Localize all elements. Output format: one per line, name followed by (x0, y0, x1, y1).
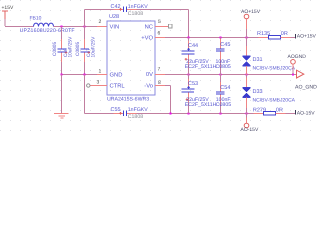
svg-text:AO+15V: AO+15V (297, 34, 317, 40)
svg-text:EC2F_5X11H: EC2F_5X11H (185, 64, 217, 70)
svg-text:C0805: C0805 (216, 64, 231, 70)
svg-text:VIN: VIN (110, 25, 120, 31)
power port AO-15V bottom (241, 114, 259, 134)
svg-text:U28: U28 (109, 14, 119, 20)
svg-text:C45: C45 (220, 42, 230, 48)
junction +VO at C45 (219, 36, 221, 38)
junction 0V at C45/C54 (219, 73, 221, 75)
junction bottom rail at D33 column (245, 112, 247, 114)
svg-text:D31: D31 (253, 57, 263, 63)
junction +VO at D31 column (245, 36, 247, 38)
svg-text:1nFGKV: 1nFGKV (128, 107, 148, 113)
svg-text:NC/BV-SMBJ20CA: NC/BV-SMBJ20CA (253, 97, 296, 103)
wire drop from GND junction to bottom rail (84, 75, 86, 114)
capacitor C42 (111, 4, 149, 17)
wire riser to top rail (84, 10, 86, 27)
wire top rail right of C42 (127, 9, 137, 11)
IC U28 (107, 14, 155, 102)
capacitor C46 (52, 27, 74, 75)
power port AO+15V top (241, 9, 261, 38)
wire FB10 to U28 pin 2 (VIN net) (54, 26, 98, 28)
TVS diode D31 (243, 38, 296, 75)
svg-text:AO-15V: AO-15V (241, 127, 259, 133)
svg-text:+VO: +VO (141, 35, 153, 42)
svg-text:CTRL: CTRL (110, 82, 126, 89)
svg-text:6: 6 (158, 31, 161, 37)
svg-text:+15V: +15V (2, 5, 14, 11)
TVS diode D33 (243, 75, 296, 114)
junction bottom rail at C53 (187, 112, 189, 114)
ferrite bead FB10 (20, 16, 75, 35)
svg-text:7: 7 (158, 67, 161, 73)
junction 0V at C44/C53 (187, 73, 189, 75)
svg-text:GND: GND (110, 71, 123, 78)
wire drop from top rail to +VO rail (188, 10, 190, 38)
svg-text:NC: NC (145, 23, 153, 30)
junction bottom rail at pin8 drop (169, 112, 171, 114)
junction 0V at AOGND (292, 73, 294, 75)
capacitor C54 (216, 75, 231, 114)
wire top rail left of C42 (85, 9, 114, 11)
junction GND at C47 (83, 73, 85, 75)
junction at C47 top (83, 25, 85, 27)
pin 8 -Vo wire (155, 86, 171, 114)
svg-text:AOGND: AOGND (288, 54, 307, 60)
power port AOGND (288, 54, 307, 74)
svg-text:1: 1 (99, 69, 102, 75)
capacitor C47 (75, 27, 97, 75)
pin 1 GND wire stub (97, 74, 107, 76)
power port +15V (2, 5, 14, 26)
capacitor C44 (182, 38, 217, 75)
svg-text:3: 3 (97, 80, 100, 86)
capacitor C55 (111, 107, 149, 120)
wire 0V rail (155, 74, 165, 76)
svg-text:0R: 0R (281, 31, 288, 37)
svg-text:10uF/25V: 10uF/25V (91, 36, 97, 58)
net label AO-15V (296, 110, 316, 116)
svg-text:AO_GND: AO_GND (295, 85, 317, 91)
svg-text:0V: 0V (146, 71, 153, 78)
wire +15V to FB10 (5, 26, 34, 28)
svg-text:C44: C44 (188, 43, 198, 49)
wire bottom rail left of C55 (85, 113, 114, 115)
svg-text:NC/BV-SMBJ20CA: NC/BV-SMBJ20CA (253, 66, 296, 72)
svg-text:2: 2 (99, 19, 102, 25)
net label AO+15V (296, 34, 317, 40)
resistor R279 (253, 107, 296, 115)
capacitor C53 (182, 75, 217, 114)
junction +VO at C44 (187, 36, 189, 38)
ground symbol (54, 114, 69, 119)
svg-text:-Vo: -Vo (144, 83, 153, 89)
wire GND left rail (62, 74, 98, 76)
svg-text:0R: 0R (276, 107, 283, 113)
junction bottom rail at C54 (219, 112, 221, 114)
svg-text:C0805: C0805 (216, 102, 231, 108)
pin 3 CTRL stub with no-connect circle (87, 84, 107, 87)
pin 5 NC stub with no-connect square (155, 24, 172, 28)
svg-text:URA2415S-6WR3: URA2415S-6WR3 (107, 97, 149, 103)
svg-text:C1808: C1808 (128, 11, 143, 17)
svg-text:C53: C53 (188, 81, 198, 87)
junction at C46 top (60, 25, 62, 27)
svg-text:D33: D33 (253, 89, 263, 95)
capacitor C45 (216, 38, 231, 75)
wire bottom rail C55 to R279 (127, 113, 137, 115)
svg-text:C54: C54 (220, 85, 230, 91)
svg-text:AO-15V: AO-15V (297, 110, 315, 116)
svg-text:C0805: C0805 (75, 42, 81, 56)
svg-text:10uF/25V: 10uF/25V (68, 36, 74, 58)
wire +VO rail (155, 37, 165, 39)
svg-text:C55: C55 (111, 107, 121, 113)
svg-text:AO+15V: AO+15V (241, 9, 261, 15)
svg-text:EC2F_5X11H: EC2F_5X11H (185, 102, 217, 108)
svg-text:C1808: C1808 (128, 114, 143, 120)
svg-text:UPZ1608U220-6R0TF: UPZ1608U220-6R0TF (20, 28, 75, 34)
junction GND at C46 (60, 73, 62, 75)
svg-text:5: 5 (158, 19, 161, 25)
svg-text:C0805: C0805 (52, 42, 58, 56)
junction 0V at D31/D33 (245, 73, 247, 75)
resistor R135 (257, 31, 296, 39)
off-page connector AO_GND (295, 70, 317, 90)
svg-text:C42: C42 (111, 4, 121, 10)
svg-text:FB10: FB10 (30, 16, 42, 22)
wire ground drop (61, 75, 63, 114)
